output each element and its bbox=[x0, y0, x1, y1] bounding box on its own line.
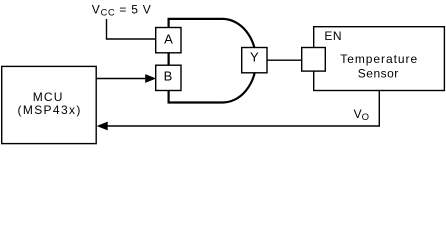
svg-text:B: B bbox=[164, 69, 173, 84]
svg-text:MCU: MCU bbox=[33, 90, 64, 104]
svg-text:VCC = 5 V: VCC = 5 V bbox=[92, 3, 152, 18]
svg-text:A: A bbox=[164, 31, 173, 46]
svg-text:EN: EN bbox=[324, 29, 342, 43]
svg-text:Sensor: Sensor bbox=[358, 66, 399, 80]
svg-text:(MSP43x): (MSP43x) bbox=[18, 103, 82, 117]
svg-text:VO: VO bbox=[354, 107, 369, 123]
svg-text:Temperature: Temperature bbox=[340, 52, 418, 66]
svg-text:Y: Y bbox=[250, 49, 259, 64]
